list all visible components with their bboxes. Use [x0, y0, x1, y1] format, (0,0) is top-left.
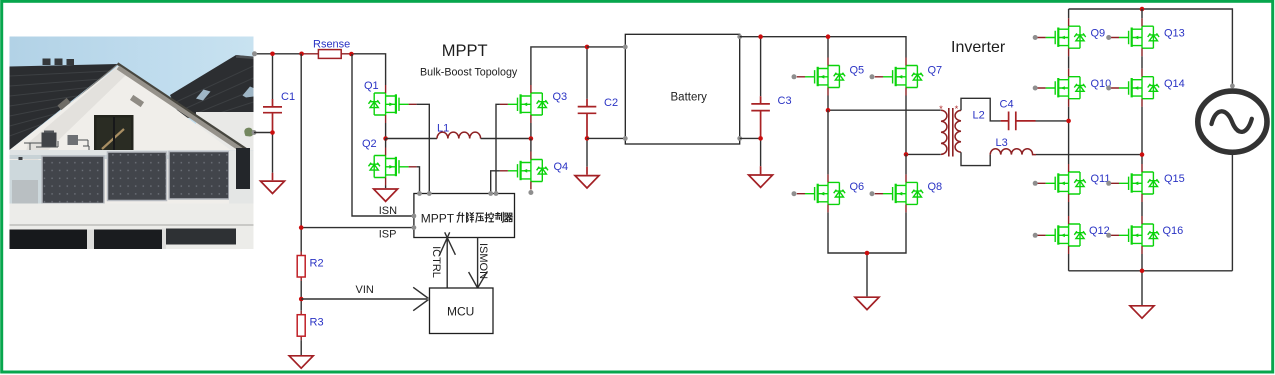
wire: C4 to inverter left leg — [1036, 120, 1069, 122]
svg-text:C1: C1 — [281, 91, 295, 103]
pad: battery left negative — [623, 136, 628, 141]
pad: controller pin Q2 gate — [417, 191, 422, 196]
wire: ISP line — [301, 227, 414, 229]
wire: Q1 gate to controller — [417, 104, 430, 193]
wire: Q1 source to node — [385, 123, 387, 139]
node: bridge bottom junction — [865, 251, 870, 256]
wire: secondary top to C4 — [961, 98, 1001, 121]
node: PV-/C1 junction — [270, 130, 275, 135]
svg-text:Q16: Q16 — [1163, 225, 1184, 237]
node: inverter top junction — [1140, 7, 1145, 12]
node: ISP junction — [299, 225, 304, 230]
wire: Q7 source to primary bottom — [906, 96, 941, 155]
svg-text:C2: C2 — [604, 97, 618, 109]
pad: controller pin ISP — [412, 225, 417, 230]
wire: Q9 source to Q10 drain — [1068, 56, 1070, 68]
wire: Q2 source to ground — [385, 186, 387, 189]
wire: AC source bottom lead — [1231, 153, 1233, 271]
svg-text:Q2: Q2 — [362, 138, 377, 150]
wire: Q12 source to bottom rail — [1068, 254, 1070, 271]
ground: Q2 source — [374, 189, 398, 201]
svg-text:Inverter: Inverter — [951, 39, 1006, 56]
node: PV+/C1 junction — [270, 52, 275, 57]
wire: Rsense stubs — [302, 53, 352, 55]
wire: Q3 drain to battery rail — [531, 47, 587, 85]
svg-text:R3: R3 — [310, 317, 324, 329]
pad: PV+ terminal — [252, 51, 257, 56]
pad: controller pin Q3 gate — [494, 191, 499, 196]
svg-text:Q6: Q6 — [850, 181, 865, 193]
wire: ICTRL MCU to controller — [439, 232, 455, 288]
transistor Q16 — [1106, 216, 1183, 254]
IC U2: MCU box — [430, 288, 494, 334]
wire: battery left connections — [587, 47, 625, 138]
capacitor C4 — [1000, 99, 1036, 131]
wire: VIN to MCU — [301, 287, 429, 310]
IC U1: MPPT buck-boost controller box — [414, 194, 515, 238]
transistor Q2 — [362, 138, 417, 186]
transistor Q4 — [500, 152, 568, 190]
photo: house with rooftop solar panels — [10, 37, 254, 250]
svg-text:C4: C4 — [1000, 99, 1014, 111]
resistor Rsense — [313, 38, 350, 58]
svg-text:L1: L1 — [437, 123, 449, 135]
wire: Q8 drain — [905, 154, 907, 174]
svg-text:ICTRL: ICTRL — [430, 246, 442, 278]
svg-text:C3: C3 — [778, 95, 792, 107]
transistor Q5 — [792, 58, 865, 96]
wire: Q3 source to node — [530, 123, 532, 139]
svg-text:Q9: Q9 — [1091, 27, 1106, 39]
node: VIN junction — [299, 297, 304, 302]
pad: battery right positive — [737, 34, 742, 39]
pad: controller pin Q4 gate — [488, 191, 493, 196]
svg-text:*: * — [955, 104, 959, 115]
wire: battery to bridge top rail — [740, 37, 906, 58]
wire: Q2 gate to controller — [417, 167, 420, 194]
svg-text:ISN: ISN — [379, 205, 397, 217]
transistor Q10 — [1033, 69, 1112, 107]
svg-text:ISP: ISP — [379, 229, 397, 241]
transistor Q11 — [1033, 164, 1111, 202]
wire: battery right negative to C3 — [740, 137, 761, 139]
inductor L1 — [386, 123, 531, 139]
svg-text:R2: R2 — [310, 258, 324, 270]
ground: C3 — [749, 175, 773, 187]
wire: Q5 source to primary top — [828, 96, 941, 111]
svg-text:Q8: Q8 — [928, 181, 943, 193]
transistor Q3 — [500, 85, 567, 123]
node: C3 top junction — [758, 34, 763, 39]
node: C4 to left leg junction — [1066, 119, 1071, 124]
transistor Q14 — [1106, 69, 1185, 107]
svg-text:Q4: Q4 — [554, 161, 569, 173]
node: Rsense right junction — [349, 52, 354, 57]
svg-text:Q14: Q14 — [1164, 78, 1185, 90]
resistor R3 — [297, 311, 323, 341]
wire: ISMON controller to MCU — [469, 238, 488, 289]
inductor L3 — [990, 137, 1036, 155]
node: C3 bottom junction — [758, 136, 763, 141]
pad: controller pin ISN — [412, 214, 417, 219]
AC source G1 — [1198, 91, 1267, 152]
node: bridge right mid junction — [904, 152, 909, 157]
wire: Q3 gate to controller — [496, 104, 500, 193]
wire: R3 to ground — [300, 340, 302, 355]
svg-text:Q13: Q13 — [1164, 27, 1185, 39]
ground: bridge — [855, 297, 879, 309]
wire: inverter bottom rail — [1069, 254, 1233, 305]
transformer T1 primary winding — [939, 104, 947, 155]
node: C2 bottom junction — [585, 136, 590, 141]
node: inverter bottom junction — [1140, 269, 1145, 274]
svg-text:L2: L2 — [973, 110, 985, 122]
wire: node to Q2 drain — [385, 139, 387, 148]
svg-text:Q5: Q5 — [850, 64, 865, 76]
svg-text:Battery: Battery — [671, 92, 708, 104]
pad: battery left positive — [623, 45, 628, 50]
wire: bridge bottom rail — [828, 212, 906, 296]
wire: Q11 source to Q12 drain — [1068, 202, 1070, 216]
svg-text:Q3: Q3 — [553, 91, 568, 103]
svg-text:L3: L3 — [996, 137, 1008, 149]
transformer T1 core — [949, 108, 953, 157]
svg-text:Q7: Q7 — [928, 64, 943, 76]
svg-text:MPPT: MPPT — [442, 42, 488, 60]
pad: Q4 source termination — [528, 190, 533, 195]
wire: secondary bottom to L3 — [961, 152, 990, 165]
wire: L3 to inverter right leg — [1036, 154, 1142, 156]
wire: ISP sense column — [300, 54, 302, 252]
pad: battery right negative — [737, 136, 742, 141]
capacitor C3 — [751, 37, 791, 175]
svg-text:Bulk-Boost Topology: Bulk-Boost Topology — [420, 66, 518, 78]
transistor Q8 — [870, 174, 943, 212]
svg-text:MCU: MCU — [447, 305, 474, 319]
svg-text:Q1: Q1 — [364, 80, 379, 92]
capacitor C2 — [578, 47, 618, 175]
node: boost switch node — [529, 136, 534, 141]
svg-text:ISMON: ISMON — [477, 243, 489, 279]
wire: Q5 drain — [827, 37, 829, 58]
wire: ISN sense column — [352, 54, 414, 216]
wire: PV- to C1 — [254, 132, 273, 134]
svg-text:Q15: Q15 — [1164, 173, 1185, 185]
ground: C1 — [261, 181, 285, 193]
resistor R2 — [297, 252, 323, 282]
node: buck switch node — [383, 136, 388, 141]
capacitor C1 — [263, 54, 295, 181]
wire: Q13 drain / Q13-Q14 link — [1141, 9, 1143, 69]
transformer T1 secondary winding — [955, 104, 961, 152]
node: bridge left mid junction — [826, 108, 831, 113]
wire: inverter top rail — [1069, 9, 1233, 86]
node: Rsense left junction — [299, 52, 304, 57]
transistor Q6 — [792, 174, 865, 212]
node: bridge top junction — [826, 34, 831, 39]
transistor Q9 — [1033, 18, 1105, 56]
ground: C2 — [575, 176, 599, 188]
node: L3 to right leg junction — [1140, 152, 1145, 157]
transistor Q1 — [364, 80, 417, 123]
wire: inverter left leg mid — [1068, 107, 1070, 164]
svg-text:VIN: VIN — [356, 284, 374, 296]
transistor Q12 — [1033, 216, 1110, 254]
svg-text:Rsense: Rsense — [313, 38, 350, 50]
svg-text:*: * — [939, 104, 943, 115]
wire: Q4 gate to controller — [491, 171, 500, 194]
wire: Q6 drain — [827, 110, 829, 174]
wire: inverter right leg mid — [1141, 107, 1143, 164]
transistor Q13 — [1106, 18, 1185, 56]
wire: R2 to VIN node — [300, 281, 302, 311]
pad: PV- terminal — [252, 130, 257, 135]
node: C2 top junction — [585, 45, 590, 50]
wire: PV positive rail — [255, 54, 386, 85]
ground: R3 — [289, 356, 313, 368]
ground: inverter output — [1130, 306, 1154, 318]
pad: controller pin Q1 gate — [427, 191, 432, 196]
svg-text:MPPT: MPPT — [421, 212, 455, 226]
wire: node to Q4 drain — [530, 139, 532, 152]
pad: AC source top — [1230, 84, 1235, 89]
transistor Q15 — [1106, 164, 1185, 202]
wire: Q15 source to Q16 drain — [1141, 202, 1143, 216]
battery box — [625, 34, 739, 144]
transistor Q7 — [870, 58, 943, 96]
